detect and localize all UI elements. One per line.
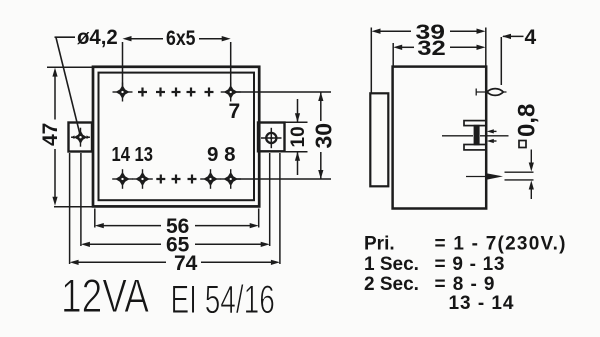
right mounting tab: [258, 123, 285, 152]
svg-text:32: 32: [417, 37, 446, 60]
dimension 74: [70, 153, 280, 264]
pins 2-6: [138, 88, 214, 97]
dimension 10: [297, 99, 299, 175]
svg-text:12VA: 12VA: [61, 270, 150, 322]
pin row extension lines right: [237, 92, 332, 179]
svg-text:30: 30: [311, 123, 337, 149]
right tab mounting hole: [261, 128, 282, 148]
side view top pin: [476, 89, 507, 96]
side view body: [393, 67, 487, 209]
svg-text:1 Sec.: 1 Sec.: [364, 254, 419, 275]
pins 10-12: [156, 175, 196, 184]
side view flange plate: [370, 93, 388, 186]
svg-text:= 9 - 13: = 9 - 13: [435, 254, 505, 275]
svg-text:0,8: 0,8: [514, 104, 541, 137]
dimension 47: [47, 67, 92, 207]
svg-text:6x5: 6x5: [166, 27, 196, 50]
dimension 65: [81, 153, 270, 246]
dimension 6x5: [123, 39, 231, 87]
svg-text:4: 4: [525, 26, 537, 49]
dimension 32: [393, 43, 478, 66]
pin 7: [221, 83, 241, 102]
pin 1: [113, 83, 133, 102]
pin 13: [132, 169, 153, 189]
svg-text:74: 74: [174, 252, 198, 275]
svg-text:= 1 - 7(230V.): = 1 - 7(230V.): [435, 233, 566, 254]
dimension 39: [371, 28, 486, 94]
dimension 0,8: [505, 150, 534, 200]
svg-text:EI 54/16: EI 54/16: [171, 278, 275, 322]
pin 14: [112, 169, 133, 189]
svg-text:47: 47: [39, 123, 62, 146]
left mounting tab: [69, 123, 93, 152]
svg-text:ø4,2: ø4,2: [77, 26, 118, 49]
svg-text:13 - 14: 13 - 14: [449, 293, 514, 314]
svg-text:2 Sec.: 2 Sec.: [364, 274, 419, 295]
dimension 4: [501, 36, 523, 85]
side view middle lug: [442, 121, 509, 150]
svg-text:14 13: 14 13: [112, 143, 154, 166]
transformer body outer outline: [93, 67, 259, 207]
pin 9: [200, 169, 221, 189]
dimension phi 4,2 leader: [55, 37, 81, 134]
svg-text:Pri.: Pri.: [364, 233, 395, 254]
svg-text:9 8: 9 8: [207, 143, 236, 166]
svg-text:7: 7: [229, 100, 241, 123]
transformer body inner outline: [99, 73, 255, 201]
left tab mounting hole: [71, 128, 90, 147]
pin 8: [220, 169, 241, 189]
dimension 30: [320, 92, 322, 179]
dimension 56: [95, 209, 259, 228]
side view bottom pin: [466, 173, 503, 179]
svg-text:10: 10: [288, 126, 309, 147]
